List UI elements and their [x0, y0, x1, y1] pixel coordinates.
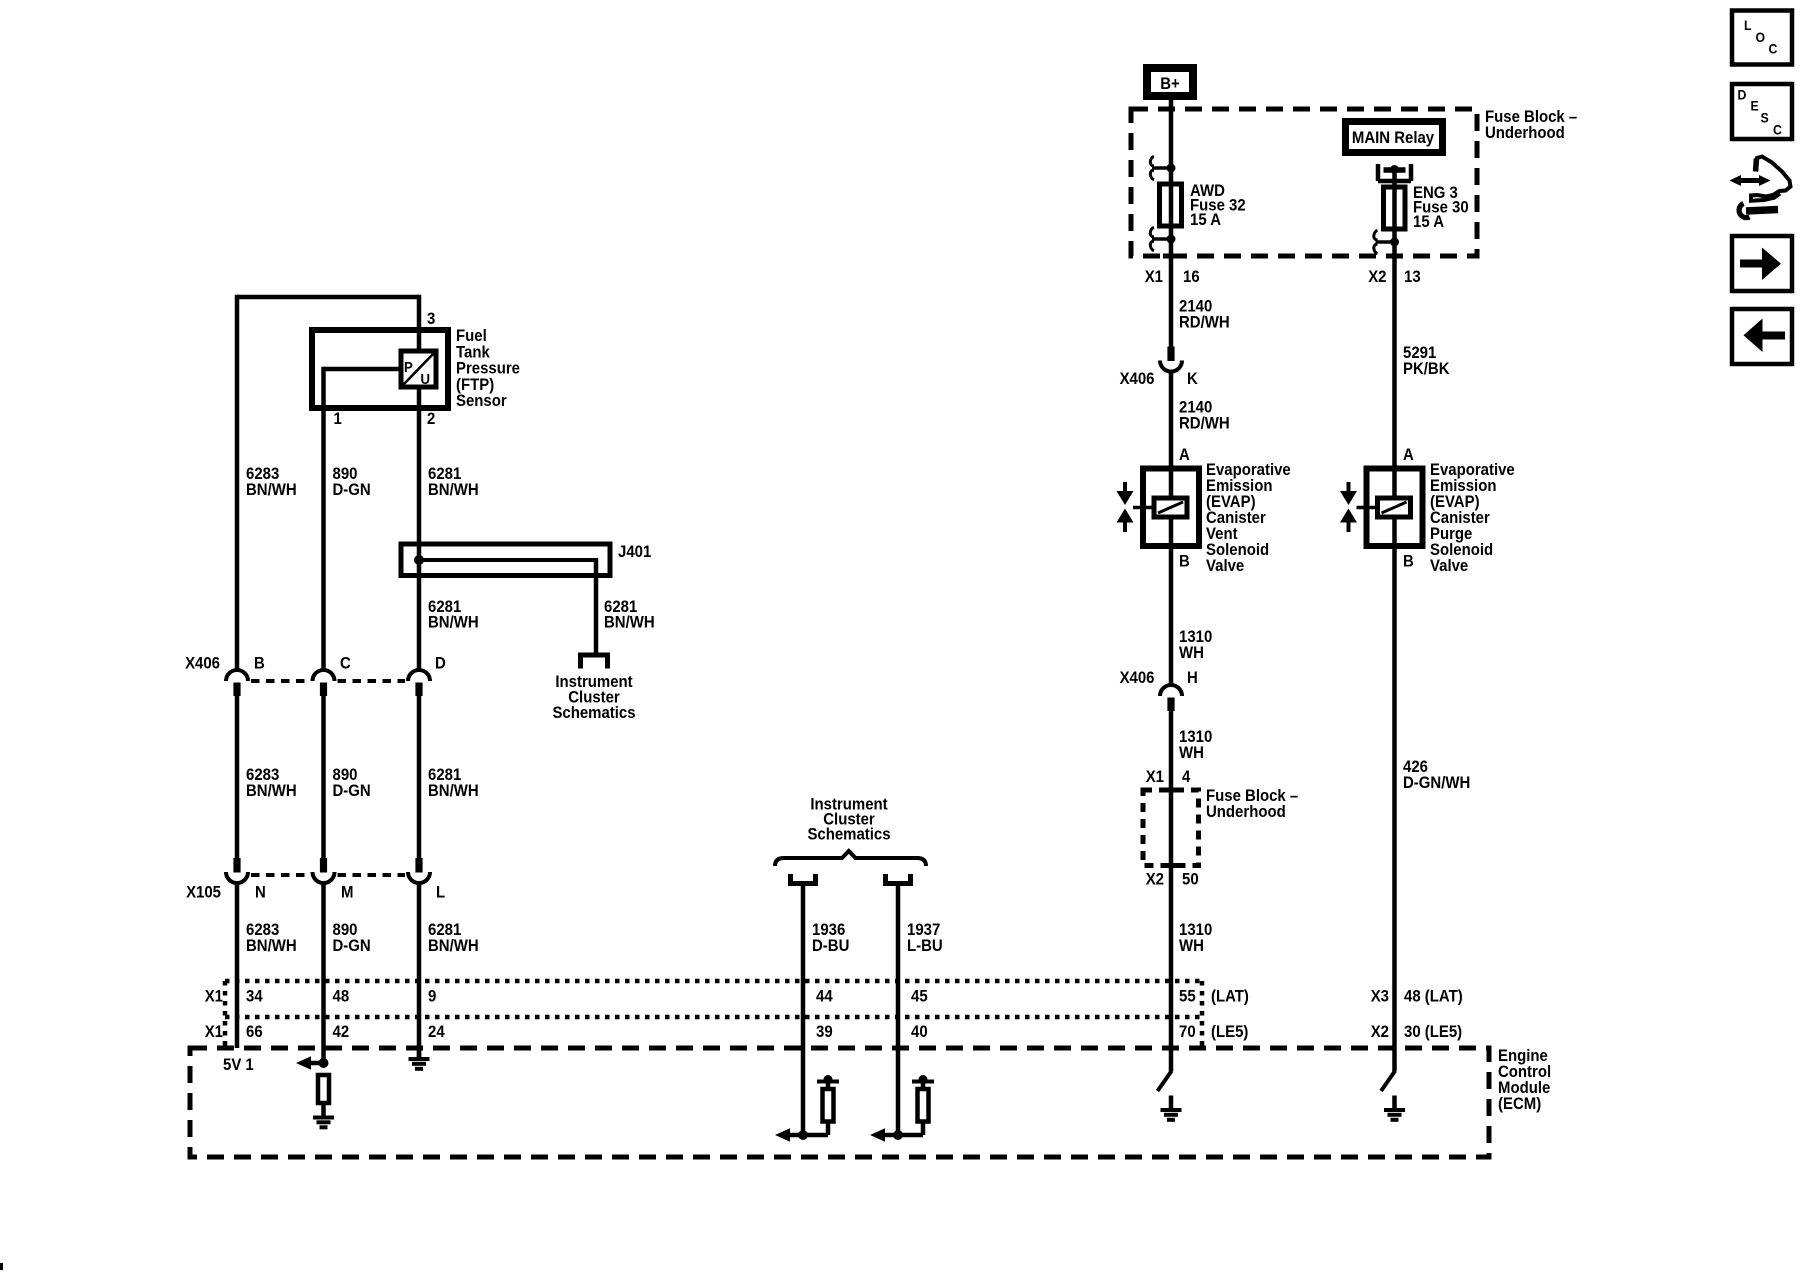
wire 1310 (2)	[1169, 710, 1174, 790]
P/U pressure transducer symbol	[401, 351, 436, 387]
splice J401 box	[401, 544, 610, 576]
svg-text:13: 13	[1404, 268, 1421, 286]
row1 pin 55 (LAT)	[1179, 988, 1196, 1006]
wire label 426 D-GN/WH	[1403, 758, 1428, 776]
pin label L	[436, 884, 445, 902]
pin label B	[254, 655, 265, 673]
svg-text:3: 3	[427, 310, 435, 328]
vent solenoid stub	[1133, 506, 1154, 510]
svg-text:U: U	[421, 370, 431, 387]
svg-text:X1: X1	[1145, 268, 1163, 286]
icon wrench	[1746, 210, 1778, 212]
pin label 3	[427, 310, 435, 328]
MAIN Relay label	[1352, 129, 1434, 147]
svg-text:4: 4	[1182, 768, 1190, 786]
off-page fork wire 1937	[883, 881, 913, 886]
row2 pin 40	[911, 1023, 928, 1041]
ECM pin39 node	[798, 1130, 808, 1140]
pin label C	[340, 655, 351, 673]
ECM pin row dotted line lower	[225, 1015, 1202, 1020]
connector dashed link N-M	[251, 873, 310, 877]
svg-text:L-BU: L-BU	[907, 937, 943, 955]
fuse ENG3 label	[1413, 184, 1458, 202]
svg-text:Underhood: Underhood	[1206, 803, 1286, 821]
row1 pin 9	[428, 988, 436, 1006]
row2 pin 66	[246, 1023, 263, 1041]
wire label 6281 BN/WH (1)	[428, 465, 461, 483]
wire label 6281 BN/WH (3)	[428, 921, 461, 939]
svg-text:WH: WH	[1179, 644, 1204, 662]
connector X406 pin K	[1167, 347, 1174, 362]
pin label A (vent)	[1179, 446, 1190, 464]
svg-text:Schematics: Schematics	[552, 704, 635, 722]
svg-text:X406: X406	[1120, 669, 1155, 687]
svg-text:BN/WH: BN/WH	[246, 937, 297, 955]
row2 pin 39	[816, 1023, 833, 1041]
svg-text:9: 9	[428, 988, 436, 1006]
svg-text:50: 50	[1182, 871, 1199, 889]
connector X105 pin N	[233, 858, 240, 873]
svg-text:45: 45	[911, 988, 928, 1006]
svg-text:Valve: Valve	[1430, 557, 1468, 575]
pin label A (purge)	[1403, 446, 1414, 464]
ECM pin70 ground	[1169, 1096, 1174, 1110]
connector X406 pin H	[1160, 685, 1182, 696]
connector label X2 13	[1368, 268, 1386, 286]
wire 6281 lower (col C)	[417, 884, 422, 1059]
svg-text:A: A	[1403, 446, 1414, 464]
svg-text:Valve: Valve	[1206, 557, 1244, 575]
svg-text:L: L	[1744, 17, 1752, 33]
wire 1936 (col D)	[801, 884, 806, 1136]
page artifact bottom-left	[0, 1263, 3, 1270]
svg-text:BN/WH: BN/WH	[428, 614, 479, 632]
svg-text:34: 34	[246, 988, 263, 1006]
connector X406 pin C	[313, 670, 335, 681]
ECM pin row dotted bracket left	[223, 981, 228, 1048]
wire 890 lower (col B)	[321, 884, 326, 1064]
svg-text:D-GN: D-GN	[333, 481, 371, 499]
wire 2140 lower	[1169, 372, 1174, 470]
svg-text:(ECM): (ECM)	[1498, 1095, 1541, 1113]
wire label 1310 WH (2)	[1179, 728, 1212, 746]
connector label X1 4	[1146, 768, 1164, 786]
row1 connector X1	[205, 988, 223, 1006]
pin label D	[435, 655, 446, 673]
pin label 2	[427, 410, 435, 428]
connector dashed link M-L	[338, 873, 406, 877]
wire relay to fuse ENG3	[1392, 169, 1397, 256]
instrument cluster schematics label (middle)	[810, 796, 888, 814]
wire label 1310 WH (3)	[1179, 921, 1212, 939]
svg-text:H: H	[1187, 669, 1198, 687]
FTP sensor label	[456, 327, 487, 345]
svg-text:D: D	[1738, 87, 1747, 103]
wire label 2140 RD/WH (2)	[1179, 399, 1212, 417]
wire through purge box	[1392, 468, 1397, 500]
svg-text:X105: X105	[186, 884, 221, 902]
tick X1-4	[1163, 788, 1179, 793]
svg-text:B+: B+	[1160, 75, 1180, 93]
icon double arrow	[1739, 178, 1761, 183]
purge solenoid stub	[1357, 506, 1378, 510]
svg-text:(LAT): (LAT)	[1211, 988, 1249, 1006]
connector X105 label	[186, 884, 221, 902]
fuse ENG 3 Fuse 30	[1384, 187, 1406, 229]
svg-text:D-BU: D-BU	[812, 937, 849, 955]
ECM pin42 ground	[321, 1103, 326, 1117]
svg-text:X2: X2	[1371, 1023, 1389, 1041]
row1 pin 45	[911, 988, 928, 1006]
vent valve symbol	[1123, 482, 1127, 492]
svg-text:X406: X406	[1120, 370, 1155, 388]
FTP sensor box	[312, 330, 448, 408]
fuse block underhood label	[1485, 108, 1577, 126]
svg-text:D-GN: D-GN	[333, 937, 371, 955]
brace	[775, 851, 926, 866]
ECM pin24 ground	[417, 1048, 422, 1058]
svg-text:X1: X1	[1146, 768, 1164, 786]
wire 890 middle (col B)	[321, 696, 326, 859]
EVAP vent label	[1206, 461, 1291, 479]
fuse block underhood small dashed box	[1143, 790, 1199, 866]
junction dot on wire 2 in J401	[414, 555, 424, 565]
relay output terminal	[1376, 164, 1381, 181]
svg-text:55: 55	[1179, 988, 1196, 1006]
svg-text:24: 24	[428, 1023, 445, 1041]
svg-text:42: 42	[333, 1023, 350, 1041]
ECM pin row dotted line upper	[225, 979, 1202, 984]
svg-text:X406: X406	[185, 655, 220, 673]
EVAP canister vent solenoid valve box	[1143, 469, 1199, 547]
row1 pin 34	[246, 988, 263, 1006]
svg-text:E: E	[1751, 98, 1759, 114]
wire through small fuse box	[1169, 790, 1174, 1072]
connector X406-H labels	[1120, 669, 1155, 687]
svg-text:RD/WH: RD/WH	[1179, 314, 1230, 332]
wire label 6281 BN/WH (branch)	[604, 598, 637, 616]
5V reference label	[223, 1056, 254, 1074]
svg-text:X2: X2	[1146, 871, 1164, 889]
wire pin 1 horizontal	[324, 367, 402, 372]
fuse clip lower ENG3	[1376, 240, 1395, 244]
ECM pin row dotted bracket right	[1200, 981, 1205, 1048]
fuse AWD Fuse 32	[1160, 184, 1182, 226]
tick X1-16	[1163, 254, 1179, 259]
svg-text:K: K	[1187, 370, 1198, 388]
svg-text:WH: WH	[1179, 937, 1204, 955]
svg-text:D-GN/WH: D-GN/WH	[1403, 774, 1470, 792]
wire J401 branch down	[594, 558, 599, 653]
fuse block underhood dashed box	[1131, 109, 1477, 256]
svg-text:44: 44	[816, 988, 833, 1006]
icon LOC box	[1732, 11, 1792, 65]
svg-text:BN/WH: BN/WH	[428, 937, 479, 955]
wire label 6283 BN/WH (1)	[246, 465, 279, 483]
svg-text:48: 48	[333, 988, 350, 1006]
row2 connector X1	[205, 1023, 223, 1041]
svg-text:Sensor: Sensor	[456, 392, 507, 410]
wire 6281 middle (col C)	[417, 696, 422, 859]
svg-text:66: 66	[246, 1023, 263, 1041]
svg-text:A: A	[1179, 446, 1190, 464]
purge valve symbol	[1347, 482, 1351, 492]
tick X2-50	[1163, 863, 1179, 868]
svg-text:16: 16	[1183, 268, 1200, 286]
svg-text:Underhood: Underhood	[1485, 124, 1565, 142]
icon forward arrow box	[1732, 236, 1792, 291]
wire label 6283 BN/WH (3)	[246, 921, 279, 939]
off-page fork to instrument cluster	[578, 653, 610, 658]
svg-text:39: 39	[816, 1023, 833, 1041]
ECM pin30 ground	[1392, 1096, 1397, 1110]
svg-text:C: C	[1769, 41, 1778, 57]
wire label 890 D-GN (2)	[333, 766, 358, 784]
svg-text:J401: J401	[618, 543, 651, 561]
ECM pin30 driver switch	[1381, 1071, 1395, 1091]
ECM pin40 pull-up resistor	[919, 1075, 928, 1084]
wire 6283 middle (col A)	[235, 696, 240, 859]
wire label 1937 L-BU	[907, 921, 940, 939]
svg-text:B: B	[1179, 553, 1190, 571]
pin label B (purge)	[1403, 553, 1414, 571]
svg-text:15 A: 15 A	[1413, 213, 1444, 231]
wire 6283 lower (col A)	[235, 884, 240, 1049]
wire through vent box	[1169, 468, 1174, 500]
wire label 6283 BN/WH (2)	[246, 766, 279, 784]
row2 pin 24	[428, 1023, 445, 1041]
svg-text:X3: X3	[1371, 988, 1389, 1006]
wire top horizontal from col A to pin 3	[237, 295, 419, 300]
svg-text:X1: X1	[205, 1023, 223, 1041]
connector X406 pin D	[408, 670, 430, 681]
B+ battery box	[1143, 64, 1197, 100]
svg-text:BN/WH: BN/WH	[428, 782, 479, 800]
ECM pin40 signal arrow	[870, 1128, 885, 1142]
svg-text:RD/WH: RD/WH	[1179, 415, 1230, 433]
svg-text:15 A: 15 A	[1190, 211, 1221, 229]
off-page fork wire 1936	[788, 881, 818, 886]
fuse clip lower AWD	[1152, 237, 1171, 241]
MAIN Relay box	[1342, 118, 1446, 156]
icon back arrow box	[1732, 309, 1792, 364]
row1 pin 48	[333, 988, 350, 1006]
svg-text:30 (LE5): 30 (LE5)	[1404, 1023, 1462, 1041]
connector X406 label	[185, 655, 220, 673]
fuse AWD label	[1190, 182, 1225, 200]
wire label 6281 BN/WH (2)	[428, 766, 461, 784]
wire 2140 upper	[1169, 256, 1174, 347]
svg-text:(LE5): (LE5)	[1211, 1023, 1248, 1041]
svg-text:Schematics: Schematics	[807, 826, 890, 844]
wire label 890 D-GN (3)	[333, 921, 358, 939]
ECM pin70 driver switch	[1158, 1071, 1172, 1091]
connector label X2 50	[1146, 871, 1164, 889]
tick X2-13	[1387, 254, 1403, 259]
svg-text:BN/WH: BN/WH	[246, 782, 297, 800]
vent solenoid coil	[1154, 498, 1187, 517]
svg-text:D-GN: D-GN	[333, 782, 371, 800]
svg-text:MAIN Relay: MAIN Relay	[1352, 129, 1434, 147]
pin label 1	[334, 410, 342, 428]
svg-text:BN/WH: BN/WH	[246, 481, 297, 499]
svg-text:P: P	[404, 358, 413, 375]
ECM label	[1498, 1047, 1548, 1065]
wire label 1310 WH (1)	[1179, 628, 1212, 646]
svg-text:1: 1	[334, 410, 342, 428]
B+ label	[1160, 75, 1180, 93]
row2 connector X2 pin 30 (LE5)	[1371, 1023, 1389, 1041]
connector label X1 16	[1145, 268, 1163, 286]
svg-text:BN/WH: BN/WH	[428, 481, 479, 499]
engine control module dashed box	[190, 1048, 1489, 1157]
wire label 1936 D-BU	[812, 921, 845, 939]
wire 5291 (col G)	[1392, 256, 1397, 470]
ECM pin39 pull-up resistor	[824, 1075, 833, 1084]
row2 pin 70 (LE5)	[1179, 1023, 1196, 1041]
ECM pin42 signal arrow	[296, 1056, 311, 1070]
svg-text:X2: X2	[1368, 268, 1386, 286]
svg-text:5V 1: 5V 1	[223, 1056, 254, 1074]
svg-text:S: S	[1761, 110, 1769, 126]
svg-text:BN/WH: BN/WH	[604, 614, 655, 632]
wire purge B down to ECM	[1392, 517, 1397, 1072]
wire label 2140 RD/WH (1)	[1179, 298, 1212, 316]
wire 1937 (col E)	[896, 884, 901, 1136]
purge solenoid coil	[1378, 498, 1411, 517]
ECM pin42 pull resistor	[318, 1075, 329, 1103]
svg-text:2: 2	[427, 410, 435, 428]
wire label 5291 PK/BK	[1403, 344, 1436, 362]
wire pin 3 into sensor	[417, 295, 422, 353]
ECM pin40 node	[893, 1130, 903, 1140]
icon vehicle outline	[1751, 157, 1791, 201]
pin label B (vent)	[1179, 553, 1190, 571]
svg-text:40: 40	[911, 1023, 928, 1041]
svg-text:X1: X1	[205, 988, 223, 1006]
svg-text:WH: WH	[1179, 744, 1204, 762]
wire B+ to fuse (AWD)	[1169, 100, 1174, 256]
connector X406-K labels	[1120, 370, 1155, 388]
EVAP purge label	[1430, 461, 1515, 479]
svg-text:PK/BK: PK/BK	[1403, 360, 1450, 378]
connector dashed link B-C	[251, 679, 310, 683]
wire vent B down	[1169, 517, 1174, 685]
fuse clip upper AWD	[1152, 166, 1171, 170]
wire pin 2 down through J401 (col C)	[417, 387, 422, 670]
svg-text:M: M	[341, 884, 353, 902]
wire label 6281 BN/WH (below J401 col C)	[428, 598, 461, 616]
svg-text:D: D	[435, 655, 446, 673]
svg-text:B: B	[1403, 553, 1414, 571]
pin label M	[341, 884, 353, 902]
svg-text:O: O	[1756, 29, 1766, 45]
icon DESC box	[1732, 84, 1792, 139]
svg-text:C: C	[340, 655, 351, 673]
svg-text:70: 70	[1179, 1023, 1196, 1041]
ECM pin39 signal arrow	[775, 1128, 790, 1142]
svg-text:B: B	[254, 655, 265, 673]
wire pin 1 vertical (col B)	[321, 367, 326, 670]
J401 label	[618, 543, 651, 561]
J401 internal wire	[419, 558, 596, 562]
wire 6283 vertical upper (col A)	[235, 295, 240, 670]
fuse block underhood small label	[1206, 787, 1298, 805]
svg-text:48 (LAT): 48 (LAT)	[1404, 988, 1463, 1006]
connector X406 pin B	[226, 670, 248, 681]
connector dashed link C-D	[338, 679, 406, 683]
svg-text:C: C	[1773, 122, 1782, 138]
row2 pin 42	[333, 1023, 350, 1041]
row1 connector X3 pin 48 (LAT)	[1371, 988, 1389, 1006]
instrument cluster schematics label (left)	[555, 673, 633, 691]
svg-text:L: L	[436, 884, 445, 902]
EVAP canister purge solenoid valve box	[1367, 469, 1423, 547]
connector X105 pin L	[415, 858, 422, 873]
pin label N	[255, 884, 266, 902]
connector X105 pin M	[320, 858, 327, 873]
wire label 890 D-GN (1)	[333, 465, 358, 483]
row1 pin 44	[816, 988, 833, 1006]
svg-text:N: N	[255, 884, 266, 902]
